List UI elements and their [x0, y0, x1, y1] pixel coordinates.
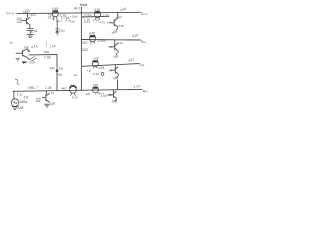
svg-text:F61: F61: [57, 73, 63, 77]
svg-text:44R: 44R: [61, 87, 67, 91]
diode D1 to ground below Q3: [55, 29, 59, 35]
svg-text:ka: ka: [10, 40, 14, 44]
svg-text:16Ra: 16Ra: [19, 100, 27, 104]
wire right column to bottom rail: [117, 80, 119, 90]
svg-text:10k: 10k: [17, 20, 23, 24]
transistor QR3 right column unit3: [110, 65, 119, 79]
svg-text:G11: G11: [106, 93, 112, 97]
transistor Q9 bottom-mid with ground: [42, 91, 50, 103]
ground below CS1: [12, 107, 18, 110]
svg-text:2k: 2k: [27, 49, 31, 53]
capacitor C1 below Q1: [27, 29, 34, 35]
svg-text:E14: E14: [117, 41, 123, 45]
label underline of -10V: [23, 11, 29, 13]
svg-text:E8: E8: [86, 92, 90, 96]
svg-text:B22: B22: [82, 48, 88, 52]
diagonal pair right of Q2: [29, 57, 37, 62]
transistor QR2 right column unit2: [110, 40, 119, 55]
wire vertical below Q3: [56, 20, 58, 28]
svg-text:ka: ka: [74, 73, 78, 77]
wire mid-left horizontal: [29, 54, 57, 56]
svg-text:X48: X48: [89, 32, 95, 36]
transistor Q6 stage3 (circle type on branch3): [92, 60, 98, 68]
svg-text:1.7M: 1.7M: [102, 13, 109, 17]
svg-text:X.18: X.18: [93, 18, 100, 22]
svg-text:NRL 7: NRL 7: [28, 86, 38, 90]
svg-text:A48: A48: [17, 106, 23, 110]
svg-text:Ma: Ma: [44, 50, 49, 54]
wire branch 2: [81, 39, 140, 42]
svg-text:X48: X48: [98, 66, 104, 70]
svg-text:(7.4)w: (7.4)w: [84, 13, 93, 17]
svg-text:1.56: 1.56: [44, 55, 51, 59]
wire faint vertical stub: [45, 41, 47, 48]
ground below Q9: [44, 104, 50, 107]
svg-text:X48: X48: [93, 83, 98, 87]
svg-text:Ref: Ref: [139, 63, 144, 67]
svg-text:44.7: 44.7: [74, 7, 81, 11]
svg-text:14: 14: [108, 45, 112, 49]
svg-text:116: 116: [70, 20, 75, 24]
wire top rail: [17, 12, 141, 13]
svg-text:+10w: +10w: [70, 14, 78, 18]
svg-text:49k: 49k: [36, 99, 41, 103]
svg-text:MV: MV: [50, 66, 56, 70]
wire bottom rail: [13, 89, 142, 91]
svg-text:Gnd: Gnd: [80, 3, 87, 7]
wire center vertical rail: [80, 7, 82, 90]
squiggle lower-left: [15, 79, 20, 85]
svg-text:A.14: A.14: [84, 20, 91, 24]
wire branch 1: [81, 15, 109, 18]
svg-text:Ref: Ref: [141, 40, 146, 44]
svg-text:R22: R22: [81, 41, 87, 45]
svg-text:1.2k: 1.2k: [45, 86, 52, 90]
wire mid vertical: [56, 55, 58, 91]
transistor Q2 mid-left: [16, 49, 30, 60]
ground small left of Q2 emitter: [16, 58, 20, 61]
svg-text:14: 14: [107, 20, 111, 24]
svg-text:E10: E10: [72, 96, 78, 100]
transistor QR4 right column unit4 below bottom rail: [108, 90, 116, 103]
arrow Im below Q2: [22, 61, 28, 64]
svg-text:A1.4: A1.4: [56, 19, 63, 23]
svg-text:X48: X48: [93, 57, 99, 61]
svg-text:4.76: 4.76: [99, 21, 105, 25]
svg-text:X48: X48: [52, 7, 58, 11]
svg-text:1.44V: 1.44V: [97, 39, 107, 43]
svg-text:Fb: Fb: [59, 67, 63, 71]
svg-text:F17: F17: [17, 93, 23, 97]
transistor QR1 right column unit1: [109, 13, 118, 31]
svg-text:212: 212: [48, 16, 54, 20]
wire branch 3: [81, 64, 139, 67]
transistor Q8 bottom rail mid (circle type): [93, 87, 99, 93]
small circle node right of 9.16: [101, 73, 104, 76]
transistor Q7 bottom rail left (circle type): [70, 86, 77, 96]
transistor Q4 stage1 (circle type on branch1): [94, 11, 100, 20]
svg-text:A18: A18: [118, 24, 124, 28]
transistor Q3 top-middle (circle type): [52, 10, 58, 20]
svg-text:1k8: 1k8: [70, 83, 75, 87]
svg-text:k11: k11: [87, 69, 92, 73]
svg-text:Fc1: Fc1: [59, 29, 65, 33]
ground below C1: [27, 35, 34, 38]
svg-text:Rout: Rout: [141, 12, 148, 16]
svg-text:9.16: 9.16: [93, 72, 99, 76]
svg-text:VIN o—: VIN o—: [6, 11, 18, 15]
svg-text:14: 14: [109, 68, 113, 72]
node Fb junction dot: [56, 70, 59, 73]
transistor Q5 stage2 (circle type on branch2): [90, 35, 96, 44]
svg-text:1.14: 1.14: [48, 91, 54, 95]
current source CS1 bottom-left: [11, 91, 19, 106]
svg-text:J11: J11: [23, 95, 28, 99]
svg-text:2nd: 2nd: [29, 61, 35, 65]
svg-text:X48: X48: [94, 8, 100, 12]
transistor Q1 top-left: [22, 14, 30, 29]
svg-text:Ref: Ref: [143, 90, 148, 94]
svg-text:-10V: -10V: [23, 9, 31, 13]
